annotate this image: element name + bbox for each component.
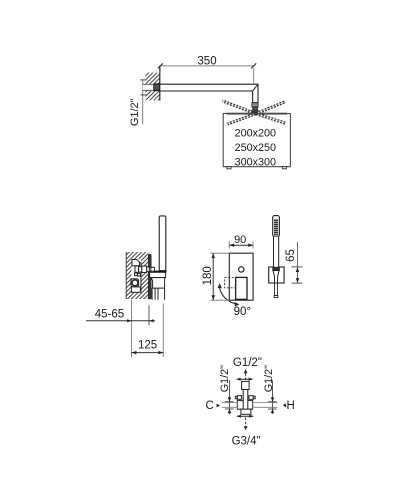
wall hatching (mixer, side view) — [126, 252, 148, 299]
svg-text:H: H — [287, 400, 295, 412]
dimension 65 (bracket) — [285, 242, 303, 284]
svg-text:G1/2": G1/2" — [233, 357, 262, 369]
svg-text:125: 125 — [138, 339, 157, 351]
dimension 125 — [132, 304, 164, 358]
valve bottom port width arrows — [237, 415, 254, 418]
hot supply pipe (H) — [253, 403, 278, 408]
G1/2" label (arm) — [129, 98, 141, 126]
svg-text:65: 65 — [285, 249, 297, 262]
hand shower handle — [272, 236, 280, 297]
dimension 350 — [158, 55, 256, 83]
svg-text:45-65: 45-65 — [95, 308, 124, 320]
svg-text:G3/4": G3/4" — [232, 436, 261, 448]
svg-text:90: 90 — [234, 234, 246, 246]
cold supply pipe (C) — [222, 403, 238, 408]
G1/2" label (right, rotated) — [263, 365, 275, 392]
C label and arrow — [205, 400, 220, 412]
left G1/2 dimension — [225, 380, 234, 414]
svg-text:300x300: 300x300 — [235, 157, 276, 169]
valve top port width arrows — [236, 378, 253, 381]
shower head (perspective X) — [222, 100, 287, 125]
mixer front plate — [225, 253, 254, 300]
valve schematic body — [235, 381, 255, 414]
svg-text:250x250: 250x250 — [235, 142, 276, 154]
svg-text:90°: 90° — [234, 306, 251, 318]
mixer spout (side view) — [150, 272, 166, 300]
hand shower head — [273, 216, 280, 237]
wall hatching (shower arm mount) — [146, 66, 160, 101]
90 degree swing arc — [218, 283, 251, 318]
size labels 200x200 / 250x250 / 300x300 — [235, 127, 276, 168]
shower arm — [160, 84, 258, 103]
dimension 45-65 — [86, 300, 155, 326]
H label and arrow — [283, 400, 295, 412]
svg-text:200x200: 200x200 — [235, 127, 276, 139]
svg-text:350: 350 — [197, 55, 216, 67]
dimension 90 (plate width) — [229, 234, 253, 249]
arm-to-head connector nut — [250, 103, 259, 114]
mixer valve body (in-wall) — [131, 260, 153, 293]
G3/4" label (bottom) — [232, 436, 261, 448]
centerline up arrow — [244, 369, 248, 381]
svg-text:G1/2": G1/2" — [129, 98, 141, 126]
wall flange (arm) — [154, 84, 160, 91]
right G1/2 dimension — [268, 380, 277, 414]
svg-text:G1/2": G1/2" — [263, 365, 275, 392]
G1/2" label (top of valve schematic) — [233, 357, 262, 369]
centerline down arrow — [244, 418, 248, 431]
dimension 180 (plate height) — [202, 253, 229, 300]
G1/2" label (left, rotated) — [219, 365, 231, 392]
svg-text:G1/2": G1/2" — [219, 365, 231, 392]
mixer handle lever (side view) — [151, 216, 167, 272]
G1/2" supply stub (arm) — [140, 80, 154, 125]
svg-text:C: C — [205, 400, 213, 412]
svg-text:180: 180 — [202, 266, 214, 285]
trim plate (side view) — [148, 254, 151, 299]
hand shower bracket — [269, 267, 284, 283]
shower head front box — [223, 114, 290, 169]
